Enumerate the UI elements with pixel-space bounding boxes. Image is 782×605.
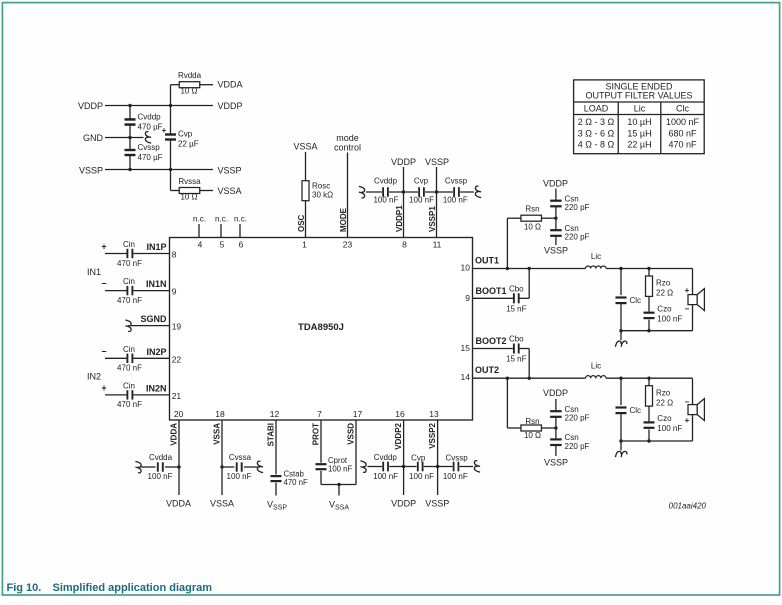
svg-text:VDDP: VDDP [78,101,103,111]
svg-text:VSSP1: VSSP1 [428,206,437,232]
svg-text:9: 9 [172,287,177,297]
svg-text:10 Ω: 10 Ω [180,193,197,202]
svg-text:15 nF: 15 nF [506,304,527,313]
svg-text:Rzo: Rzo [656,388,671,397]
svg-text:Rsn: Rsn [525,417,539,426]
svg-text:VSSA: VSSA [212,423,221,445]
svg-text:470 nF: 470 nF [284,478,309,487]
svg-text:OUT2: OUT2 [475,365,499,375]
svg-text:22 Ω: 22 Ω [656,398,673,407]
svg-text:VSSA: VSSA [218,186,242,196]
svg-text:470 nF: 470 nF [117,364,142,373]
svg-text:OSC: OSC [297,214,306,232]
svg-text:12: 12 [270,409,280,419]
svg-text:1000 nF: 1000 nF [666,117,700,127]
svg-text:Fig 10.: Fig 10. [7,582,42,594]
svg-text:100 nF: 100 nF [443,196,468,205]
svg-text:LOAD: LOAD [584,104,609,114]
svg-text:Rvdda: Rvdda [178,71,202,80]
svg-text:30 kΩ: 30 kΩ [312,190,333,199]
svg-text:VSSP: VSSP [425,157,449,167]
svg-text:Rosc: Rosc [312,182,330,191]
svg-text:−: − [101,346,106,356]
svg-text:17: 17 [353,409,363,419]
svg-text:220 pF: 220 pF [565,203,590,212]
svg-text:Clc: Clc [676,104,689,114]
svg-text:PROT: PROT [311,423,320,445]
svg-text:VDDP: VDDP [391,499,416,509]
svg-text:470 µF: 470 µF [138,153,163,162]
svg-text:15 nF: 15 nF [506,355,527,364]
svg-text:20: 20 [174,409,184,419]
svg-text:21: 21 [172,391,182,401]
svg-text:VSSA: VSSA [293,142,317,152]
svg-text:Cvp: Cvp [414,177,429,186]
svg-text:VDDA: VDDA [169,423,178,446]
svg-text:100 nF: 100 nF [373,196,398,205]
svg-text:n.c.: n.c. [234,215,247,224]
svg-text:VSSP: VSSP [218,166,242,176]
svg-text:Cvssp: Cvssp [138,143,161,152]
svg-text:VSSP2: VSSP2 [428,422,437,448]
svg-text:22 µH: 22 µH [627,140,651,150]
svg-text:n.c.: n.c. [215,215,228,224]
svg-text:Cvssp: Cvssp [445,454,468,463]
svg-text:Czo: Czo [657,305,672,314]
svg-text:−: − [101,279,106,289]
svg-text:Cvddp: Cvddp [374,453,398,462]
svg-text:Cvp: Cvp [411,454,426,463]
svg-text:10 Ω: 10 Ω [524,431,541,440]
svg-text:+: + [685,416,690,425]
svg-text:Lic: Lic [591,362,601,371]
svg-text:Cvssa: Cvssa [229,453,252,462]
svg-text:VDDA: VDDA [166,499,191,509]
svg-text:VDDP: VDDP [543,178,568,188]
svg-text:BOOT2: BOOT2 [476,336,507,346]
svg-text:8: 8 [402,240,407,250]
svg-text:Rsn: Rsn [525,205,539,214]
svg-text:Cvssp: Cvssp [445,177,468,186]
svg-text:4: 4 [198,240,203,250]
svg-text:VSSA: VSSA [210,499,234,509]
svg-text:15: 15 [461,343,471,353]
svg-text:STABI: STABI [266,423,275,446]
svg-text:6: 6 [239,240,244,250]
svg-text:IN2N: IN2N [146,383,167,393]
svg-text:n.c.: n.c. [193,215,206,224]
svg-text:Cvdda: Cvdda [149,453,173,462]
svg-text:100 nF: 100 nF [657,424,682,433]
svg-text:VSSP: VSSP [544,458,568,468]
svg-text:18: 18 [215,409,225,419]
svg-text:Cin: Cin [123,345,135,354]
svg-text:470 nF: 470 nF [117,259,142,268]
svg-text:22: 22 [172,354,182,364]
svg-text:Cin: Cin [123,240,135,249]
svg-text:3 Ω - 6 Ω: 3 Ω - 6 Ω [578,128,615,138]
svg-text:Clc: Clc [630,406,642,415]
svg-text:13: 13 [429,409,439,419]
svg-text:IN1: IN1 [87,267,101,277]
svg-text:Cbo: Cbo [509,285,524,294]
svg-text:OUT1: OUT1 [475,256,499,266]
svg-text:100 nF: 100 nF [373,472,398,481]
svg-text:+: + [685,286,690,295]
svg-text:+: + [101,242,106,252]
svg-text:470 µF: 470 µF [138,123,163,132]
svg-text:Cin: Cin [123,277,135,286]
svg-text:16: 16 [395,409,405,419]
svg-text:Cvddp: Cvddp [374,177,398,186]
svg-text:10 Ω: 10 Ω [524,223,541,232]
svg-text:2 Ω - 3 Ω: 2 Ω - 3 Ω [578,117,615,127]
svg-text:Lic: Lic [591,252,601,261]
svg-text:−: − [685,398,690,407]
svg-text:220 pF: 220 pF [565,233,590,242]
svg-text:Clc: Clc [630,296,642,305]
svg-text:VSSP: VSSP [79,166,103,176]
svg-text:220 pF: 220 pF [565,414,590,423]
svg-text:Cin: Cin [123,381,135,390]
svg-text:VDDP2: VDDP2 [394,422,403,449]
svg-text:GND: GND [83,133,104,143]
svg-text:Rzo: Rzo [656,279,671,288]
svg-text:Cbo: Cbo [509,335,524,344]
svg-text:10 Ω: 10 Ω [180,87,197,96]
svg-text:IN2: IN2 [87,372,101,382]
svg-text:+: + [101,383,106,393]
svg-text:MODE: MODE [339,207,348,232]
svg-text:10: 10 [461,263,471,273]
svg-text:VDDP: VDDP [218,101,243,111]
svg-text:OUTPUT FILTER VALUES: OUTPUT FILTER VALUES [585,91,692,101]
svg-text:23: 23 [343,240,353,250]
svg-text:100 nF: 100 nF [328,464,353,473]
svg-text:IN1P: IN1P [146,242,166,252]
svg-text:11: 11 [433,240,442,250]
svg-text:100 nF: 100 nF [443,472,468,481]
svg-text:Cvddp: Cvddp [138,113,162,122]
svg-text:VSSP: VSSP [544,245,568,255]
svg-text:TDA8950J: TDA8950J [298,322,344,333]
svg-text:100 nF: 100 nF [148,472,173,481]
svg-text:22 µF: 22 µF [178,140,199,149]
svg-text:680 nF: 680 nF [668,128,697,138]
svg-text:VDDP1: VDDP1 [395,205,404,232]
svg-text:Czo: Czo [657,414,672,423]
svg-text:10 µH: 10 µH [627,117,651,127]
svg-text:VDDP: VDDP [391,157,416,167]
svg-text:100 nF: 100 nF [409,472,434,481]
svg-text:100 nF: 100 nF [227,472,252,481]
svg-text:15 µH: 15 µH [627,128,651,138]
svg-text:220 pF: 220 pF [565,442,590,451]
svg-text:mode: mode [336,133,359,143]
svg-text:5: 5 [220,240,225,250]
svg-text:IN1N: IN1N [146,279,167,289]
svg-text:VDDP: VDDP [543,388,568,398]
svg-text:+: + [162,126,167,135]
svg-text:9: 9 [465,293,470,303]
svg-text:Cvp: Cvp [178,130,193,139]
svg-text:Simplified application diagram: Simplified application diagram [53,582,213,594]
svg-text:VSSD: VSSD [346,423,355,445]
svg-text:SGND: SGND [140,314,167,324]
svg-text:14: 14 [461,372,471,382]
svg-text:VDDA: VDDA [218,80,243,90]
svg-text:BOOT1: BOOT1 [476,286,507,296]
svg-text:8: 8 [172,250,177,260]
svg-text:100 nF: 100 nF [657,315,682,324]
svg-text:470 nF: 470 nF [117,296,142,305]
svg-text:100 nF: 100 nF [409,196,434,205]
svg-text:7: 7 [317,409,322,419]
svg-text:19: 19 [172,322,182,332]
svg-text:4 Ω - 8 Ω: 4 Ω - 8 Ω [578,140,615,150]
svg-text:001aai420: 001aai420 [669,502,707,511]
svg-text:22 Ω: 22 Ω [656,289,673,298]
svg-text:Rvssa: Rvssa [178,177,201,186]
svg-text:control: control [334,143,361,153]
svg-text:VSSP: VSSP [425,499,449,509]
svg-text:470 nF: 470 nF [668,140,697,150]
svg-text:1: 1 [302,240,307,250]
svg-text:470 nF: 470 nF [117,400,142,409]
svg-text:−: − [685,305,690,314]
svg-text:Lic: Lic [634,104,646,114]
svg-text:IN2P: IN2P [146,347,166,357]
